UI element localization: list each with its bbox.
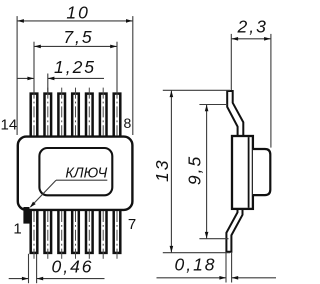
dimension 7,5 (lead span) <box>33 42 35 94</box>
side view: lower lead (bent) <box>226 208 242 252</box>
pin 10 (top lead) <box>86 94 93 138</box>
pin 3 (bottom lead) <box>58 210 65 253</box>
pin 9 (top lead) <box>100 94 107 138</box>
pin 8 (top lead) <box>114 94 121 138</box>
svg-text:7: 7 <box>128 216 136 233</box>
svg-text:7,5: 7,5 <box>63 27 93 47</box>
pin 6 (bottom lead) <box>100 210 107 253</box>
dimension 2,3 (package thickness) <box>230 34 232 90</box>
side view: package body <box>232 136 253 209</box>
dimension 10 (package width) <box>16 16 18 135</box>
side view: upper lead (bent) <box>227 91 243 138</box>
pin 12 (top lead) <box>58 94 65 138</box>
pin 11 (top lead) <box>72 94 79 138</box>
svg-text:1: 1 <box>13 220 21 237</box>
pin 1 (bottom lead) <box>31 210 38 253</box>
dimension 13 (overall lead span) <box>163 89 230 91</box>
svg-text:9,5: 9,5 <box>184 155 204 185</box>
svg-text:0,18: 0,18 <box>174 255 216 275</box>
IC package body (front view) <box>18 137 133 210</box>
side view: lid seam line <box>248 137 250 208</box>
svg-text:13: 13 <box>152 159 172 182</box>
key mark (index) <box>23 207 29 224</box>
svg-text:1,25: 1,25 <box>54 57 96 77</box>
dimension 0,18 (lead thickness) <box>225 253 227 283</box>
pin 13 (top lead) <box>45 94 52 138</box>
svg-text:2,3: 2,3 <box>237 17 268 37</box>
pin 2 (bottom lead) <box>45 210 52 253</box>
dimension 0,46 (lead width) <box>28 254 30 283</box>
svg-text:0,46: 0,46 <box>51 257 93 277</box>
dimension 9,5 (body span between bends) <box>199 104 227 106</box>
pin 5 (bottom lead) <box>86 210 93 253</box>
svg-text:14: 14 <box>1 117 18 134</box>
pin 7 (bottom lead) <box>114 210 121 253</box>
svg-text:КЛЮЧ: КЛЮЧ <box>65 166 107 182</box>
inner cavity outline <box>39 148 112 195</box>
side view: projecting cap <box>253 149 270 195</box>
svg-text:8: 8 <box>124 115 132 131</box>
pin 14 (top lead) <box>31 94 38 138</box>
dimension 1,25 (lead pitch) <box>47 74 49 94</box>
pin 4 (bottom lead) <box>72 210 79 253</box>
svg-text:10: 10 <box>66 2 89 22</box>
